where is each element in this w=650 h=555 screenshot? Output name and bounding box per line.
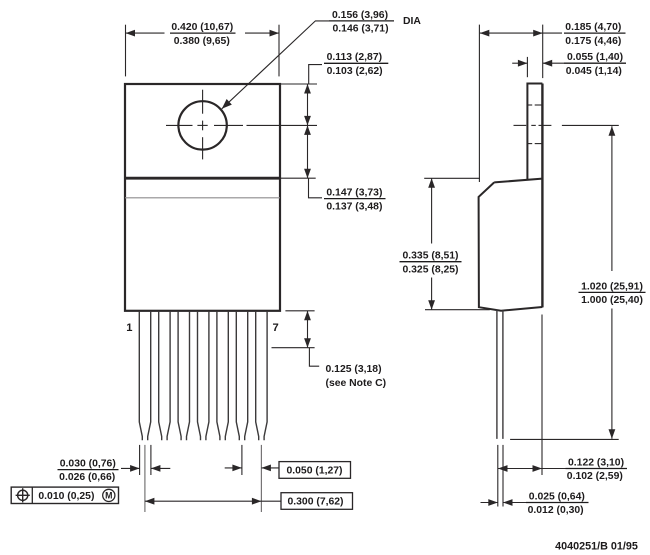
svg-text:(see Note C): (see Note C) (326, 378, 387, 389)
svg-text:0.125 (3,18): 0.125 (3,18) (326, 364, 382, 375)
pin 6 (236, 311, 247, 440)
front view tab/body thick boundary line (125, 177, 280, 180)
dim 0.300 boxed value (281, 493, 353, 510)
svg-text:0.025 (0,64): 0.025 (0,64) (529, 491, 585, 502)
dim 0.147 vertical dimension line (307, 125, 309, 178)
svg-text:0.030 (0,76): 0.030 (0,76) (60, 458, 116, 469)
svg-text:0.300 (7,62): 0.300 (7,62) (287, 496, 343, 507)
dim 0.122 dimension line with arrows (498, 468, 566, 470)
dim 0.050 arrows (225, 467, 242, 469)
body right edge extension line (541, 315, 543, 476)
svg-text:1.020 (25,91): 1.020 (25,91) (581, 281, 643, 292)
pin6 center extension line (241, 445, 243, 475)
dim 1.020/1.000 value text (579, 281, 646, 306)
dim 0.030/0.026 value text (58, 458, 119, 483)
svg-text:0.325 (8,25): 0.325 (8,25) (402, 264, 458, 275)
side view tab outline (527, 84, 542, 180)
position symbol (18, 490, 28, 500)
dim 0.025/0.012 value text (526, 491, 589, 516)
svg-text:0.185 (4,70): 0.185 (4,70) (565, 22, 621, 33)
svg-text:1.000 (25,40): 1.000 (25,40) (581, 295, 643, 306)
hole vertical center line (202, 90, 204, 160)
side view pin (497, 310, 503, 439)
svg-text:0.147 (3,73): 0.147 (3,73) (326, 188, 382, 199)
side view body right edge (541, 84, 543, 308)
dim 0.156/0.146 DIA value text (329, 10, 421, 35)
geometric tolerance feature control frame (11, 487, 118, 503)
dim 0.147 extension line (thick line extended) (280, 177, 316, 179)
svg-text:0.103 (2,62): 0.103 (2,62) (327, 66, 383, 77)
dim 0.030 arrows (121, 467, 140, 469)
dim 0.147 leader elbow (309, 178, 323, 198)
svg-text:0.137 (3,48): 0.137 (3,48) (326, 201, 382, 212)
dim 0.125 value text (326, 364, 387, 389)
pin 2 (159, 311, 170, 440)
dim 0.113/0.103 value text (324, 52, 388, 77)
dim 1.020 vertical dimension line (611, 126, 613, 439)
pin1 edge extension lines (140, 445, 151, 475)
svg-text:0.380 (9,65): 0.380 (9,65) (174, 36, 230, 47)
side view body outline (479, 179, 543, 311)
dim 0.125 vertical dimension line (307, 311, 309, 348)
dim 0.050 boxed value (279, 462, 351, 479)
svg-text:0.026 (0,66): 0.026 (0,66) (59, 472, 115, 483)
dim 0.125 lower reference line (272, 347, 315, 349)
pin 5 (217, 311, 228, 440)
svg-text:1: 1 (126, 322, 132, 334)
svg-text:0.050 (1,27): 0.050 (1,27) (286, 466, 342, 477)
dim 0.055 extension line (526, 57, 528, 77)
dim 0.113 extension line (top edge extended) (280, 83, 317, 85)
pin 3 (178, 311, 189, 440)
dim 0.125 extension line (body bottom extended) (285, 310, 314, 312)
dim 0.113 vertical dimension line (307, 84, 309, 125)
svg-text:0.045 (1,14): 0.045 (1,14) (566, 66, 622, 77)
svg-text:0.102 (2,59): 0.102 (2,59) (567, 471, 623, 482)
dim 0.125 leader elbow (309, 348, 319, 367)
dim 0.025 arrows (481, 502, 498, 504)
dim 0.185 extension lines (479, 25, 542, 182)
hole horizontal center line (166, 124, 317, 126)
bottom reference line (510, 438, 619, 440)
dim 0.335 vertical dimension line (431, 178, 433, 309)
dim 0.185 dimension line with arrows (480, 32, 562, 34)
dim 0.335 extension lines (424, 178, 490, 309)
dim 0.055/0.045 value text (564, 52, 626, 77)
front view body outline (125, 84, 280, 311)
svg-text:0.010 (0,25): 0.010 (0,25) (38, 491, 94, 502)
dim 0.420 extension lines (126, 25, 280, 77)
dim 0.113 leader elbow (309, 65, 322, 84)
dim 0.055 arrows (512, 62, 527, 64)
svg-text:7: 7 (272, 322, 278, 334)
svg-text:0.335 (8,51): 0.335 (8,51) (402, 251, 458, 262)
dim 0.122/0.102 value text (566, 457, 628, 482)
dim 0.420 dimension line with arrows (126, 32, 280, 34)
dim 0.147/0.137 value text (324, 188, 386, 213)
front view thin mold line (125, 197, 280, 199)
dim 0.185/0.175 value text (564, 22, 626, 47)
svg-text:0.122 (3,10): 0.122 (3,10) (568, 457, 624, 468)
M circle modifier (103, 489, 115, 501)
pin 1 (139, 311, 150, 440)
svg-text:0.055 (1,40): 0.055 (1,40) (567, 52, 623, 63)
mounting hole circle (178, 101, 226, 149)
dim 0.300 dimension line with arrows (145, 500, 262, 502)
svg-text:0.175 (4,46): 0.175 (4,46) (565, 36, 621, 47)
svg-text:M: M (105, 491, 112, 501)
svg-text:0.146 (3,71): 0.146 (3,71) (333, 24, 389, 35)
side view center line (514, 124, 619, 126)
hole DIA leader line (222, 21, 329, 109)
dim 0.335/0.325 value text (400, 251, 462, 276)
pin 4 (198, 311, 209, 440)
pin 7 (256, 311, 267, 440)
side view tab hidden hole lines (527, 105, 542, 144)
svg-text:0.113 (2,87): 0.113 (2,87) (327, 52, 382, 63)
dim 0.420/0.380 value text (170, 22, 236, 47)
svg-text:0.420 (10,67): 0.420 (10,67) (171, 22, 233, 33)
svg-text:0.156 (3,96): 0.156 (3,96) (332, 10, 388, 21)
pin7 center extension line (260, 445, 262, 512)
pin1 center extension line (144, 445, 146, 512)
svg-text:DIA: DIA (403, 16, 421, 27)
pin edge extension lines (498, 445, 503, 507)
svg-text:4040251/B 01/95: 4040251/B 01/95 (555, 541, 638, 553)
svg-text:0.012 (0,30): 0.012 (0,30) (528, 505, 584, 516)
